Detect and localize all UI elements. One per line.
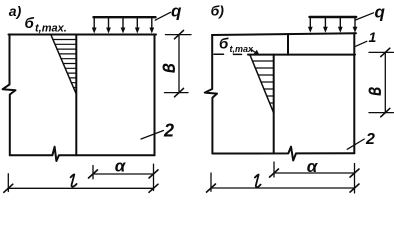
bottom edge with break (fig b) xyxy=(212,147,354,161)
svg-text:α: α xyxy=(115,157,127,176)
dimension b bottom tick (fig a) xyxy=(165,92,189,94)
dimension l left tick (fig b) xyxy=(210,173,212,191)
dimension l line (fig b) xyxy=(211,187,355,189)
left edge with break (fig a) xyxy=(3,35,16,156)
slab strip divider (fig b) xyxy=(287,34,289,55)
slash at l/tick (fig b) xyxy=(350,184,359,192)
dimension a left tick (fig b) xyxy=(273,162,275,177)
stress triangle hypotenuse (fig a) xyxy=(51,35,76,93)
svg-text:в: в xyxy=(155,63,180,73)
shared right tick for a and l (fig b) xyxy=(354,164,356,194)
distributed load bar (fig a) xyxy=(94,16,156,18)
load arrows (fig b) xyxy=(310,18,355,28)
dimension b vertical line (fig b) xyxy=(384,52,386,112)
leader to q (fig a) xyxy=(155,12,170,20)
svg-text:t,max.: t,max. xyxy=(35,22,67,34)
svg-text:q: q xyxy=(375,3,386,22)
right edge (fig b) xyxy=(353,33,355,153)
right edge (fig a) xyxy=(154,35,156,156)
distributed load bar (fig b) xyxy=(310,16,357,18)
svg-text:q: q xyxy=(171,2,182,21)
label l (fig b) xyxy=(255,175,261,188)
top surface line (fig a) xyxy=(9,34,157,36)
leader to 1 (fig b) xyxy=(355,41,367,47)
svg-text:а): а) xyxy=(9,3,22,19)
shared right tick for a and l (fig a) xyxy=(153,164,155,190)
label sigma t,max (fig b) xyxy=(219,36,254,54)
slash at l/tick (fig a) xyxy=(149,184,158,192)
svg-text:α: α xyxy=(307,157,319,176)
label l (fig a) xyxy=(71,174,77,186)
dimension b top tick (fig b) xyxy=(369,51,394,53)
slab strip bottom dashes (fig b) xyxy=(214,53,242,55)
dimension l slash left (fig b) xyxy=(207,184,216,192)
dimension b slashes (fig b) xyxy=(381,48,390,56)
wall line (fig b) xyxy=(273,55,275,154)
leader to q (fig b) xyxy=(356,13,374,20)
bottom edge with break (fig a) xyxy=(10,147,155,161)
svg-text:2: 2 xyxy=(163,120,174,140)
load arrows (fig a) xyxy=(94,18,152,28)
dimension l line (fig a) xyxy=(8,187,153,189)
leader to 2 (fig a) xyxy=(141,131,164,140)
slash at a/tick (fig a) xyxy=(149,170,158,178)
leader to 2 (fig b) xyxy=(347,139,364,149)
dimension a slash left (fig a) xyxy=(89,170,98,178)
stress triangle hatch (fig a) xyxy=(53,40,76,88)
dimension l left tick (fig a) xyxy=(7,174,9,192)
slab strip top line (fig b) xyxy=(212,33,356,35)
left edge with break (fig b) xyxy=(205,35,217,154)
svg-text:б: б xyxy=(219,36,229,53)
stress triangle hypotenuse (fig b) xyxy=(250,55,273,112)
dimension b bottom tick (fig b) xyxy=(369,112,394,114)
wall line (fig a) xyxy=(75,35,77,156)
dimension a line (fig a) xyxy=(93,173,154,175)
dimension a slash left (fig b) xyxy=(270,169,279,177)
svg-text:1: 1 xyxy=(369,29,377,45)
dimension a line (fig b) xyxy=(274,172,355,174)
dimension b slashes (fig a) xyxy=(175,30,184,38)
dimension b vertical line (fig a) xyxy=(178,35,180,93)
slab strip bottom solid line / block top surface (fig b) xyxy=(248,54,355,56)
leader arrow from label to hypotenuse (fig b) xyxy=(252,50,259,55)
stress triangle hatch (fig b) xyxy=(253,61,274,109)
dimension l slash left (fig a) xyxy=(4,184,13,192)
dimension a left tick (fig a) xyxy=(92,166,94,179)
svg-text:б: б xyxy=(25,15,35,32)
svg-text:в: в xyxy=(361,87,387,96)
svg-text:б): б) xyxy=(211,3,225,19)
dimension b top tick (fig a) xyxy=(166,34,192,36)
slash at a/tick (fig b) xyxy=(350,169,359,177)
svg-text:t,max: t,max xyxy=(230,44,255,54)
svg-text:2: 2 xyxy=(365,131,375,148)
label sigma t,max (fig a) xyxy=(25,15,67,35)
